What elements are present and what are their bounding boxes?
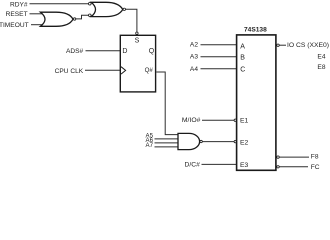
svg-text:74S138: 74S138 bbox=[244, 26, 267, 33]
S pin bubble bbox=[136, 32, 138, 34]
svg-text:A4: A4 bbox=[190, 66, 198, 73]
OR gate U2 with inverted inputs (RDY#, U1 out) bbox=[89, 2, 126, 16]
svg-text:C: C bbox=[240, 66, 245, 73]
decoder U5 74S138 bbox=[237, 26, 276, 170]
svg-text:IO CS (XXE0): IO CS (XXE0) bbox=[287, 42, 329, 49]
wire TIMEOUT to U1 bbox=[31, 24, 45, 26]
svg-text:CPU CLK: CPU CLK bbox=[55, 68, 84, 75]
svg-text:A3: A3 bbox=[190, 54, 198, 61]
flip-flop U3 (D flip-flop) bbox=[120, 32, 155, 92]
wire CPU CLK to clock input bbox=[85, 69, 120, 71]
svg-text:RESET: RESET bbox=[6, 11, 28, 18]
svg-text:Q: Q bbox=[149, 48, 155, 55]
NAND gate U4 bbox=[178, 133, 202, 149]
svg-text:F8: F8 bbox=[311, 154, 319, 161]
svg-text:ADS#: ADS# bbox=[66, 48, 84, 55]
pin E2 bubble bbox=[234, 140, 236, 142]
svg-text:E2: E2 bbox=[240, 139, 249, 146]
svg-text:A: A bbox=[240, 44, 245, 51]
clock triangle bbox=[121, 67, 126, 74]
wire U4 output to E2 bbox=[202, 141, 234, 143]
wire Q# output to NAND top input bbox=[156, 72, 179, 135]
wire A2 to pin A bbox=[201, 44, 237, 46]
svg-text:D/C#: D/C# bbox=[185, 161, 201, 168]
wire A5 bbox=[155, 138, 180, 140]
wire RESET to U1 bbox=[30, 13, 46, 15]
wire U1 output to U2 lower input (jog) bbox=[76, 15, 89, 19]
svg-text:E3: E3 bbox=[240, 162, 249, 169]
svg-text:A2: A2 bbox=[190, 42, 198, 49]
NOR gate U1 (RESET, TIMEOUT) bbox=[41, 12, 76, 26]
wire A3 to pin B bbox=[201, 56, 237, 58]
pin E1 bubble bbox=[234, 119, 236, 121]
pin F8 bubble bbox=[277, 156, 279, 158]
wire ADS# to D input bbox=[86, 50, 121, 52]
svg-text:FC: FC bbox=[311, 164, 320, 171]
svg-text:M/IO#: M/IO# bbox=[182, 117, 201, 124]
svg-text:E4: E4 bbox=[317, 54, 325, 61]
wire M/IO# to E1 bbox=[202, 119, 234, 121]
svg-text:D: D bbox=[122, 48, 127, 55]
pin FC bubble bbox=[277, 166, 279, 168]
wire A6 bbox=[155, 142, 180, 144]
svg-text:S: S bbox=[135, 37, 140, 44]
svg-text:Q#: Q# bbox=[145, 67, 154, 74]
svg-text:E8: E8 bbox=[317, 64, 325, 71]
wire FC output bbox=[279, 166, 308, 168]
pin IO CS bubble bbox=[277, 44, 279, 46]
wire A4 to pin C bbox=[201, 68, 237, 70]
svg-text:TIMEOUT: TIMEOUT bbox=[0, 22, 29, 29]
wire F8 output bbox=[279, 156, 309, 158]
svg-text:RDY#: RDY# bbox=[10, 1, 28, 8]
wire D/C# to E3 bbox=[202, 163, 237, 165]
svg-text:A7: A7 bbox=[146, 142, 154, 149]
wire RDY# to U2 input bbox=[30, 3, 89, 5]
svg-text:B: B bbox=[240, 55, 245, 62]
svg-text:E1: E1 bbox=[240, 118, 249, 125]
wire A7 bbox=[155, 146, 180, 148]
wire U2 output to flip-flop S pin bbox=[125, 9, 136, 32]
wire IO CS output bbox=[279, 44, 286, 46]
